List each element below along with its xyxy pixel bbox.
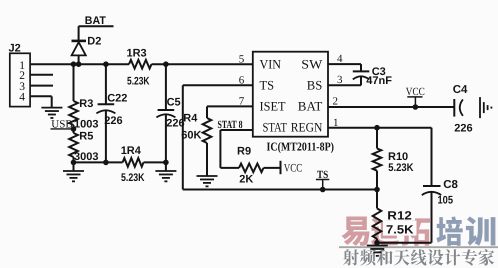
svg-text:SW: SW	[301, 57, 323, 72]
wire: TS node to R12	[376, 190, 378, 209]
ground (below R5)	[73, 162, 75, 171]
node: R10/R12/TS junction	[374, 187, 380, 193]
resistor R9	[239, 164, 264, 173]
node: USB net between R3 and R5	[71, 126, 77, 132]
capacitor C8	[423, 185, 441, 187]
svg-text:5.23K: 5.23K	[388, 162, 413, 174]
ground (below R4)	[197, 175, 218, 177]
node: bus junction for R3	[71, 61, 77, 67]
wire: R9 to VCC tag	[264, 167, 281, 169]
resistor 1R3 (inline on bus)	[129, 60, 152, 69]
node: C5 bottom junction	[163, 160, 169, 166]
svg-text:R3: R3	[79, 98, 93, 110]
wire: bottom run to C8	[377, 242, 432, 244]
node: TS tag junction	[320, 187, 326, 193]
svg-text:2K: 2K	[239, 174, 253, 186]
svg-text:BAT: BAT	[85, 15, 106, 27]
svg-text:VCC: VCC	[284, 163, 303, 175]
wire: J2 pin 3 stub	[30, 85, 53, 87]
svg-text:226: 226	[454, 123, 472, 135]
IC U1 MT2011-8P	[253, 52, 328, 137]
svg-text:ISET: ISET	[260, 98, 286, 113]
ground (C4, rotated right)	[479, 97, 481, 118]
resistor R4	[203, 118, 212, 143]
wire: BAT pin2 to C4	[328, 106, 454, 108]
node: R10 tap on REGN wire	[374, 125, 380, 131]
svg-text:R9: R9	[237, 146, 251, 158]
svg-text:105: 105	[438, 195, 454, 207]
svg-text:R5: R5	[79, 131, 93, 143]
wire: BS pin3 to C3	[328, 84, 361, 86]
resistor R5	[69, 133, 78, 157]
svg-text:R12: R12	[387, 208, 412, 222]
wire: D2 cathode up to BAT tag	[78, 26, 80, 41]
watermark line 2: 射频和天线设计专家	[343, 249, 359, 265]
watermark underline rule	[339, 246, 498, 248]
svg-text:BS: BS	[307, 78, 323, 93]
svg-text:60K: 60K	[181, 129, 201, 141]
resistor R3	[69, 101, 78, 125]
node: bus junction for D2	[76, 61, 82, 67]
svg-text:C5: C5	[167, 97, 181, 109]
wire: R12 to bottom node	[376, 239, 378, 243]
capacitor C22	[105, 64, 107, 104]
wire: R10 to TS node	[376, 171, 378, 190]
wire: REGN down to C8	[431, 128, 433, 186]
svg-text:C4: C4	[453, 84, 468, 96]
node: C22 bottom on ground rail	[103, 160, 109, 166]
svg-text:J2: J2	[9, 43, 21, 55]
wire: STAT pin8 to R9	[220, 129, 252, 131]
diode D2	[72, 42, 86, 55]
svg-text:4: 4	[19, 92, 25, 104]
svg-text:R4: R4	[183, 113, 198, 125]
svg-text:BAT: BAT	[298, 98, 323, 113]
capacitor C3	[353, 70, 370, 72]
wire: ISET pin7 to R4	[207, 105, 253, 107]
svg-text:5.23K: 5.23K	[127, 76, 150, 88]
watermark line 1: 易迪拓培训 logo	[341, 217, 369, 246]
wire: SW pin4 to C3	[328, 63, 361, 65]
node: C5 top on bus	[163, 61, 169, 67]
svg-text:C22: C22	[107, 92, 127, 104]
node: C22 top on bus	[103, 61, 109, 67]
svg-text:TS: TS	[260, 78, 275, 93]
svg-text:226: 226	[104, 115, 122, 127]
svg-text:STAT: STAT	[263, 119, 288, 134]
node: R5 bottom junction	[71, 160, 77, 166]
wire: R4 to ground	[206, 143, 208, 176]
wire: TS pin6 to vertical	[183, 84, 253, 86]
svg-text:1R4: 1R4	[121, 145, 142, 157]
svg-text:2: 2	[333, 95, 339, 107]
resistor 1R4 (inline on ground rail)	[123, 158, 144, 167]
wire: J2 pin 2 stub	[30, 74, 53, 76]
svg-text:47nF: 47nF	[366, 75, 392, 87]
svg-text:REGN: REGN	[291, 119, 323, 134]
resistor R12	[373, 208, 382, 238]
wire: left ground rail	[74, 161, 123, 163]
wire: down to R10	[376, 128, 378, 149]
svg-text:5: 5	[239, 53, 245, 65]
ground (J2 pin 4)	[41, 107, 62, 109]
wire: REGN pin1 run	[328, 127, 432, 129]
node: VCC tap on BAT wire	[413, 104, 419, 110]
ground (below R12)	[376, 243, 378, 246]
power tag VCC (at R9)	[280, 161, 282, 174]
svg-text:7.5K: 7.5K	[386, 223, 414, 237]
capacitor C5	[165, 64, 167, 110]
wire: R5 to ground rail	[73, 157, 75, 162]
wire: J2 pin 4 to ground	[30, 95, 52, 97]
wire: TS horizontal run	[183, 189, 377, 191]
wire: bus down to R3	[73, 64, 75, 101]
svg-text:1R3: 1R3	[127, 48, 147, 60]
ground (below C5 / 1R4)	[165, 162, 167, 171]
svg-text:IC(MT2011-8P): IC(MT2011-8P)	[267, 140, 335, 154]
svg-text:C8: C8	[443, 179, 458, 191]
svg-text:1003: 1003	[74, 119, 98, 131]
wire: D2 anode to bus	[78, 55, 80, 64]
capacitor C4	[453, 99, 455, 117]
svg-text:D2: D2	[87, 36, 101, 48]
node: R12 bottom junction	[374, 240, 380, 246]
connector J2	[10, 53, 30, 106]
resistor R10	[373, 148, 382, 170]
svg-text:5.23K: 5.23K	[121, 172, 145, 184]
wire: VIN bus from J2 pin1 to IC pin5	[30, 63, 129, 65]
svg-text:VIN: VIN	[260, 57, 282, 72]
